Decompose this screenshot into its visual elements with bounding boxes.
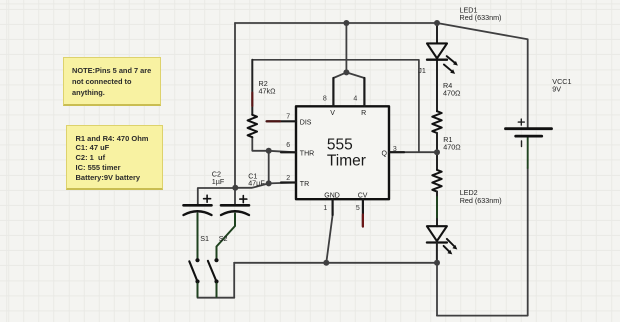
svg-text:9V: 9V — [552, 85, 561, 94]
wire THR node to pin 6 — [269, 151, 296, 153]
node capacitors C1/C2 — [232, 185, 238, 191]
wire TR node to pin 2 — [269, 182, 296, 185]
svg-text:470Ω: 470Ω — [443, 143, 461, 152]
svg-text:S2: S2 — [219, 234, 228, 243]
wire capacitor node to C1 top — [234, 188, 236, 205]
svg-text:8: 8 — [323, 95, 327, 102]
svg-text:THR: THR — [300, 150, 314, 157]
svg-text:470Ω: 470Ω — [443, 88, 461, 97]
svg-text:Red (633nm): Red (633nm) — [460, 13, 502, 22]
pin 1 GND stub — [332, 199, 334, 215]
capacitor C1 — [217, 196, 250, 259]
svg-text:6: 6 — [286, 142, 290, 149]
pin number labels — [286, 95, 397, 212]
svg-text:3: 3 — [393, 146, 397, 153]
switch S2 — [208, 258, 219, 297]
pin 4 R stub — [363, 78, 365, 106]
svg-text:1µF: 1µF — [212, 177, 225, 186]
wire VCC drop to pins 8 and 4 — [333, 23, 364, 78]
svg-text:Q: Q — [382, 150, 388, 157]
svg-text:Red (633nm): Red (633nm) — [460, 196, 502, 205]
svg-text:DIS: DIS — [300, 119, 312, 126]
pin 7 DIS leg (unconnected, red tip) — [267, 120, 296, 122]
pin 2 TR stub — [281, 181, 296, 183]
node THR — [266, 148, 272, 154]
battery VCC1 — [506, 119, 552, 146]
node TR — [266, 180, 272, 186]
wire capacitor node to C2 top — [198, 188, 236, 205]
wire left vertical rail — [234, 23, 236, 188]
pin 8 V stub — [332, 78, 334, 106]
wire TR node to capacitor node — [235, 183, 268, 187]
pin 5 CV leg (unconnected, red tip) — [362, 199, 364, 226]
resistor R2 — [248, 60, 257, 137]
svg-text:2: 2 — [286, 175, 290, 182]
wire ground rail riser — [233, 263, 235, 298]
svg-text:GND: GND — [324, 192, 340, 199]
svg-text:7: 7 — [286, 113, 290, 120]
svg-text:47kΩ: 47kΩ — [259, 87, 277, 96]
svg-text:V: V — [330, 110, 335, 117]
pin 6 THR stub — [281, 151, 296, 153]
wire VCC top rail — [235, 22, 437, 24]
resistor R4 — [432, 60, 441, 153]
svg-text:5: 5 — [356, 205, 360, 212]
svg-text:Timer: Timer — [327, 153, 366, 170]
svg-text:R: R — [361, 110, 366, 117]
component value labels — [200, 6, 571, 244]
junction GND on ground rail — [323, 260, 329, 266]
wire switch bottom bus — [198, 297, 235, 299]
switch S1 — [189, 258, 199, 297]
svg-text:J1: J1 — [418, 66, 426, 75]
resistor R1 — [432, 152, 441, 226]
wire Q output to R4/R1 junction — [389, 151, 437, 153]
LED LED1 — [427, 23, 458, 74]
svg-text:TR: TR — [300, 181, 309, 188]
note sticky component values — [66, 125, 163, 190]
svg-text:CV: CV — [358, 192, 368, 199]
junction top rail / LED1 anode — [434, 20, 440, 26]
wire THR node to TR node — [268, 151, 270, 184]
wire LED2 cathode to bottom rail — [436, 263, 438, 316]
svg-text:S1: S1 — [200, 234, 209, 243]
wire bottom rail to battery minus — [437, 168, 528, 316]
wire R2 bottom to THR node — [252, 137, 268, 151]
wire R2 top to J1 — [252, 60, 419, 152]
LED LED2 — [427, 226, 457, 263]
note sticky NOTE pins 5 and 7 — [63, 57, 161, 106]
wire battery minus lead (green) — [527, 137, 529, 168]
junction LED2 cathode on ground rail — [434, 260, 440, 266]
label 555 Timer — [327, 137, 366, 170]
node Q / R4 / R1 — [434, 149, 440, 155]
svg-text:4: 4 — [353, 95, 357, 102]
junction top rail / pins 8-4 drop — [343, 20, 349, 26]
svg-text:47µF: 47µF — [248, 178, 265, 187]
wire ground rail horizontal — [234, 262, 437, 264]
svg-text:1: 1 — [323, 205, 327, 212]
pin name labels — [300, 110, 388, 199]
op-amp U1 555 timer body — [296, 106, 389, 199]
capacitor C2 — [184, 195, 212, 258]
svg-text:555: 555 — [327, 137, 353, 154]
wire GND pin 1 to ground rail — [326, 200, 332, 263]
wire top rail to battery plus (diagonal) — [437, 23, 528, 127]
junction pins 8 and 4 — [343, 69, 349, 75]
pin 3 Q stub — [389, 151, 404, 153]
